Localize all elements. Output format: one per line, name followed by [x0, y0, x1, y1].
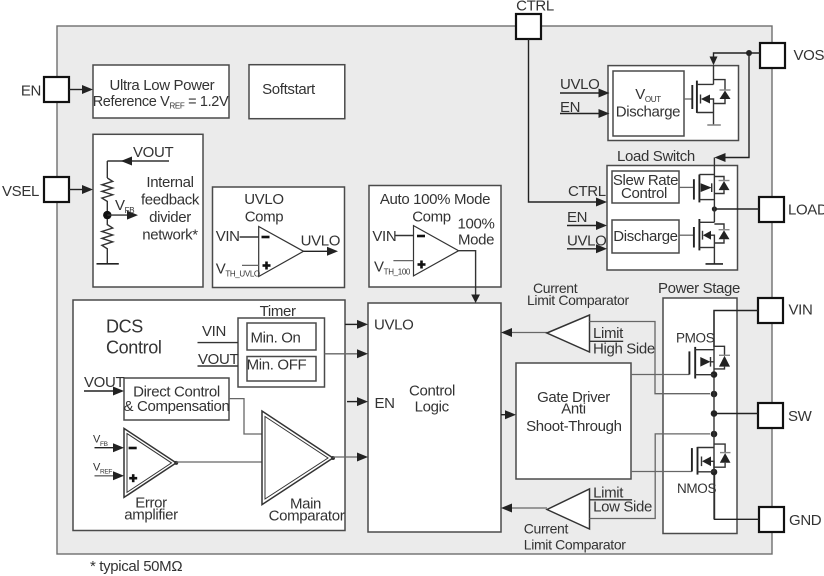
svg-text:SW: SW: [788, 408, 813, 425]
svg-text:amplifier: amplifier: [124, 507, 178, 524]
svg-text:VIN: VIN: [202, 323, 226, 340]
svg-text:Discharge: Discharge: [613, 228, 677, 245]
svg-text:Logic: Logic: [415, 399, 450, 416]
svg-text:CTRL: CTRL: [568, 183, 606, 200]
svg-text:Load Switch: Load Switch: [617, 148, 695, 165]
svg-text:Control: Control: [106, 337, 162, 357]
svg-text:LOAD: LOAD: [788, 202, 824, 219]
svg-text:DCS: DCS: [106, 316, 143, 336]
svg-text:Control: Control: [621, 185, 667, 202]
svg-text:Comp: Comp: [245, 209, 284, 226]
svg-text:VIN: VIN: [372, 228, 396, 245]
svg-text:Auto 100% Mode: Auto 100% Mode: [380, 191, 490, 208]
svg-text:Mode: Mode: [458, 232, 494, 249]
svg-text:High Side: High Side: [593, 341, 655, 358]
svg-text:Discharge: Discharge: [616, 104, 680, 121]
svg-text:NMOS: NMOS: [677, 481, 716, 496]
svg-text:Internal: Internal: [146, 174, 193, 191]
svg-text:Limit Comparator: Limit Comparator: [524, 537, 626, 553]
svg-text:Softstart: Softstart: [262, 81, 316, 98]
svg-text:Comp: Comp: [412, 209, 451, 226]
svg-text:Limit: Limit: [593, 325, 624, 342]
svg-text:VOUT: VOUT: [133, 144, 173, 161]
svg-text:VOUT: VOUT: [84, 374, 124, 391]
svg-text:UVLO: UVLO: [301, 233, 340, 250]
svg-text:VIN: VIN: [216, 228, 240, 245]
svg-text:PMOS: PMOS: [676, 331, 715, 346]
svg-text:* typical 50MΩ: * typical 50MΩ: [90, 558, 182, 575]
svg-text:Anti: Anti: [561, 401, 585, 418]
svg-text:EN: EN: [567, 209, 587, 226]
svg-text:divider: divider: [149, 209, 191, 226]
svg-text:EN: EN: [21, 83, 41, 100]
svg-text:& Compensation: & Compensation: [124, 398, 230, 415]
svg-text:CTRL: CTRL: [516, 0, 554, 15]
svg-text:Shoot-Through: Shoot-Through: [526, 418, 622, 435]
svg-text:feedback: feedback: [141, 192, 200, 209]
svg-text:Power Stage: Power Stage: [658, 280, 740, 297]
svg-text:Timer: Timer: [260, 303, 296, 320]
svg-text:EN: EN: [375, 395, 395, 412]
svg-text:Control: Control: [409, 383, 455, 400]
svg-text:VSEL: VSEL: [2, 183, 39, 200]
svg-text:UVLO: UVLO: [374, 317, 413, 334]
svg-text:Reference VREF = 1.2V: Reference VREF = 1.2V: [93, 94, 229, 111]
svg-text:Comparator: Comparator: [269, 508, 345, 525]
svg-text:Limit Comparator: Limit Comparator: [527, 292, 629, 308]
svg-text:Low Side: Low Side: [593, 499, 652, 516]
svg-text:Min. On: Min. On: [250, 329, 300, 346]
svg-text:network*: network*: [142, 227, 198, 244]
svg-text:Ultra Low Power: Ultra Low Power: [110, 77, 215, 94]
svg-text:UVLO: UVLO: [560, 76, 599, 93]
svg-text:100%: 100%: [458, 216, 495, 233]
svg-text:UVLO: UVLO: [244, 191, 283, 208]
svg-text:GND: GND: [789, 512, 822, 529]
svg-text:Min. OFF: Min. OFF: [247, 357, 307, 374]
svg-text:Current: Current: [524, 521, 569, 537]
svg-text:VOS: VOS: [794, 47, 824, 64]
svg-text:VIN: VIN: [789, 302, 813, 319]
